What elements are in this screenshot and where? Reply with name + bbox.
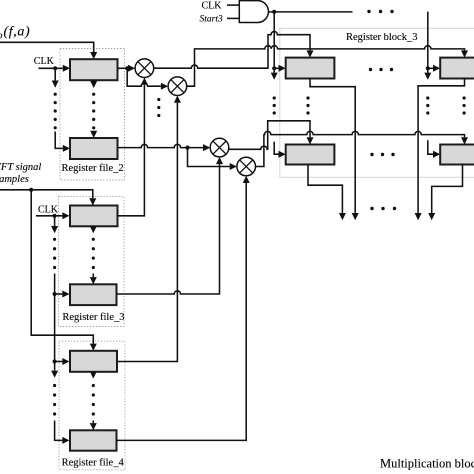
wire RF4-1 output up to M2 bottom <box>117 96 181 362</box>
register RF2-1 <box>70 59 118 80</box>
wire arrow into RF4-1 left <box>55 358 70 365</box>
wire AND control chain left column <box>271 12 278 80</box>
node RF3-2 clk junction <box>53 292 57 296</box>
wire arrow into B3-L1 left <box>274 65 286 72</box>
wire CLK into U1 <box>227 4 239 6</box>
register B3-R1 <box>440 58 474 79</box>
ellipsis multiplier rows <box>157 98 160 117</box>
wire RF4 data stub below RF4-1 <box>90 371 97 378</box>
wire W(f,a) input to RF2-1 top <box>0 42 97 59</box>
wire RF4-2 output up to M4 bottom <box>117 176 250 441</box>
register RF4-1 <box>70 351 117 372</box>
register block_3 faint outline <box>280 28 474 177</box>
register B3-L1 <box>286 58 335 79</box>
wire arrow into B3-R1 left <box>428 65 440 72</box>
ellipsis RF4 data column <box>92 384 95 416</box>
wire U1 output <box>268 11 352 13</box>
svg-text:Register file_3: Register file_3 <box>62 312 124 323</box>
wire RF2-2 output to multiplier M3 <box>118 144 211 151</box>
ellipsis B3 row2 horizontal <box>370 153 394 156</box>
wire RF3 clk branch down <box>51 216 58 233</box>
multiplier M4 <box>237 157 256 176</box>
wire RF2 clk branch down <box>52 68 59 87</box>
ellipsis B3 right control column <box>426 96 429 114</box>
register RF3-2 <box>70 284 117 305</box>
wire RF2 clk chain into RF2-2 left <box>55 132 70 152</box>
ellipsis RF3 data column <box>92 238 95 269</box>
wire RF3 data chain into RF3-2 top <box>90 274 97 285</box>
wire M1 output to B3-L1 top <box>154 32 314 69</box>
multiplier M3 <box>210 138 229 157</box>
wire CLK into RF2-1 left <box>39 65 71 72</box>
svg-text:o: o <box>0 31 3 42</box>
node RF2-2 output junction <box>185 146 189 150</box>
wire RF3-2 output up to M3 bottom <box>117 157 224 294</box>
wire B3-R2 output down <box>428 165 462 221</box>
wire control stub into B3-R2 left <box>428 140 440 157</box>
node RF2-1 output junction <box>125 66 129 70</box>
wire clk chain RF3-2 to RF4-1 <box>51 274 58 378</box>
wire M3 output to B3-L2 top <box>229 121 314 150</box>
register B3-L2 <box>286 145 335 165</box>
multiplier M2 <box>168 77 187 96</box>
register B3-R2 <box>440 145 474 165</box>
svg-text:Register block_3: Register block_3 <box>346 32 417 43</box>
ellipsis B3 right data column <box>463 96 466 114</box>
svg-text:Register file_2: Register file_2 <box>62 163 124 174</box>
wire Start3 into U1 <box>227 17 239 19</box>
wire arrow into RF3-2 left <box>55 291 70 298</box>
wire B3-L2 output down <box>308 165 346 221</box>
ellipsis AND line top <box>367 10 393 13</box>
ellipsis RF2 clk column <box>54 93 57 130</box>
ellipsis B3 left control column <box>273 96 276 114</box>
wire B3-R1 output down <box>415 79 465 221</box>
register file_4 dotted border <box>59 341 125 470</box>
multiplier M1 <box>135 59 154 78</box>
node B3-R1 control junction <box>426 66 430 70</box>
svg-text:samples: samples <box>0 174 29 185</box>
ellipsis B3 left data column <box>306 96 309 114</box>
svg-text:FFT signal: FFT signal <box>0 162 41 173</box>
wire clk chain into RF4-2 left <box>55 421 70 444</box>
ellipsis RF4 clk column <box>53 384 56 416</box>
wire RF2 data chain into RF2-2 top <box>90 131 97 138</box>
svg-text:Register file_4: Register file_4 <box>62 458 125 469</box>
node RF3 clk junction <box>53 214 57 218</box>
node RF2 clk junction <box>53 66 57 70</box>
wire M2 output long line to B3-R1 top <box>187 46 468 87</box>
wire RF2-1 output to multiplier M1 <box>118 65 136 72</box>
svg-text:CLK: CLK <box>34 56 55 67</box>
node RF4-1 clk junction <box>53 359 57 363</box>
wire CLK into RF3-1 left <box>36 212 70 219</box>
wire FFT branch down to RF4-1 top <box>31 190 97 351</box>
wire RF3-1 output up to M1 bottom <box>118 78 148 216</box>
register RF4-2 <box>70 430 117 450</box>
node B3-L1 control junction <box>272 66 276 70</box>
ellipsis B3 row1 horizontal <box>369 68 393 71</box>
svg-text:Start3: Start3 <box>200 15 223 25</box>
wire B3-L1 output down <box>310 79 359 221</box>
wire AND control chain right column <box>424 12 431 80</box>
wire RF2 data stub below RF2-1 <box>90 80 97 88</box>
wire M4 output long line to B3-R2 top <box>256 131 469 166</box>
register RF2-2 <box>70 138 118 159</box>
wire branch down to multiplier M2 <box>127 68 168 89</box>
svg-text:(f,a): (f,a) <box>4 25 31 40</box>
svg-text:Multiplication block: Multiplication block <box>380 457 474 471</box>
svg-text:CLK: CLK <box>38 205 59 216</box>
and-gate U1 <box>239 1 268 23</box>
wire branch down to multiplier M4 <box>188 148 237 170</box>
ellipsis RF3 clk column <box>53 238 56 269</box>
register file_3 dotted border <box>59 197 125 327</box>
node FFT input junction <box>29 188 33 192</box>
svg-text:CLK: CLK <box>202 1 223 12</box>
ellipsis B3 bottom horizontal <box>370 207 396 210</box>
ellipsis RF2 data column <box>92 93 95 130</box>
node U1 output junction <box>272 10 276 14</box>
wire RF3 data stub below RF3-1 <box>90 226 97 233</box>
wire FFT samples input to RF3-1 top <box>0 190 96 206</box>
register RF3-1 <box>70 206 118 227</box>
wire control stub into B3-L2 left <box>274 142 286 158</box>
wire RF4 data chain into RF4-2 top <box>90 421 97 431</box>
register file_2 dotted border <box>60 49 125 181</box>
